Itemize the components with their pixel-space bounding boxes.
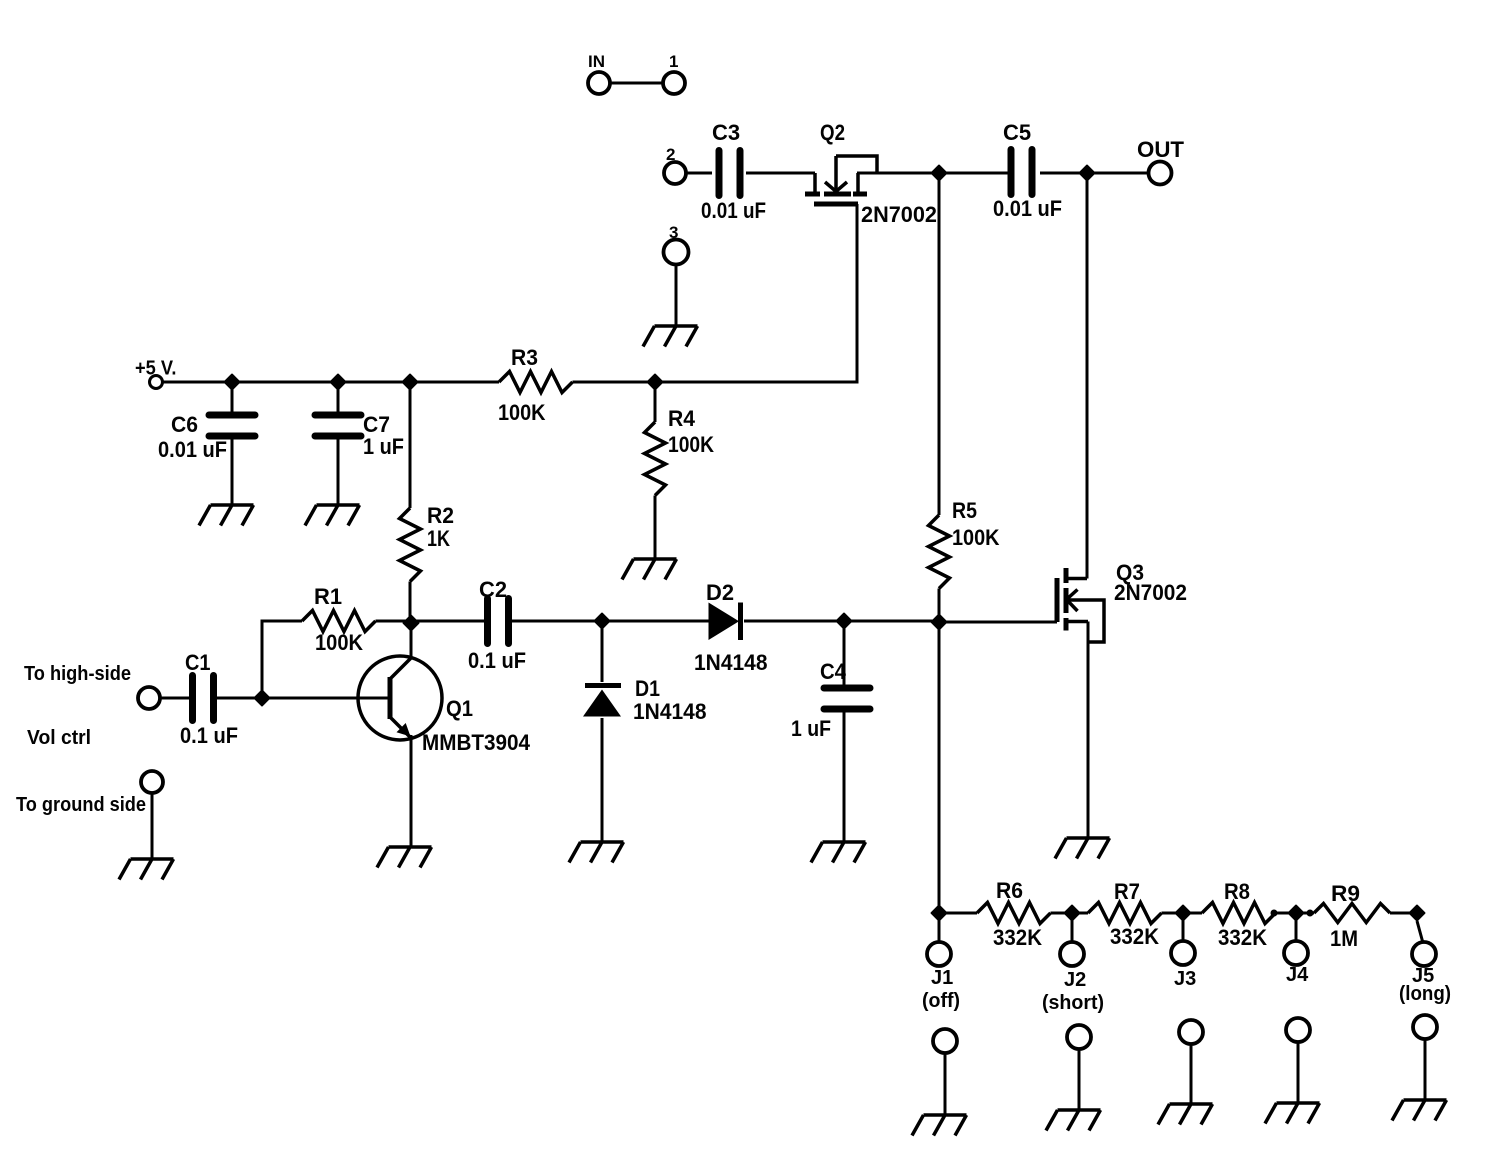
svg-text:C5: C5 <box>1003 120 1031 145</box>
svg-text:332K: 332K <box>1110 924 1159 949</box>
svg-text:OUT: OUT <box>1137 137 1185 162</box>
svg-text:(long): (long) <box>1399 983 1451 1005</box>
svg-text:C2: C2 <box>479 577 507 602</box>
svg-text:100K: 100K <box>952 525 1000 550</box>
svg-text:332K: 332K <box>1218 925 1267 950</box>
svg-text:1 uF: 1 uF <box>363 434 404 459</box>
svg-text:0.01 uF: 0.01 uF <box>158 437 227 462</box>
svg-text:J3: J3 <box>1174 968 1196 990</box>
svg-text:J1: J1 <box>931 967 953 989</box>
svg-text:R7: R7 <box>1114 879 1140 904</box>
svg-text:J2: J2 <box>1064 969 1086 991</box>
svg-text:0.1 uF: 0.1 uF <box>180 723 238 748</box>
svg-text:100K: 100K <box>498 400 546 425</box>
svg-text:332K: 332K <box>993 925 1042 950</box>
svg-text:2N7002: 2N7002 <box>861 202 937 227</box>
svg-text:3: 3 <box>669 223 678 242</box>
svg-text:R2: R2 <box>427 503 454 528</box>
svg-text:D2: D2 <box>706 580 734 605</box>
svg-text:IN: IN <box>588 52 605 71</box>
svg-text:1M: 1M <box>1330 926 1358 951</box>
svg-text:C3: C3 <box>712 120 740 145</box>
svg-text:To high-side: To high-side <box>24 663 131 685</box>
svg-text:R4: R4 <box>668 406 696 431</box>
svg-text:J4: J4 <box>1286 964 1309 986</box>
svg-text:2: 2 <box>666 145 675 164</box>
svg-text:0.1 uF: 0.1 uF <box>468 648 526 673</box>
svg-text:Q1: Q1 <box>446 696 473 721</box>
svg-text:Q2: Q2 <box>820 120 845 145</box>
svg-text:To ground side: To ground side <box>16 794 146 816</box>
svg-text:R3: R3 <box>511 345 538 370</box>
svg-text:100K: 100K <box>315 630 363 655</box>
svg-text:C4: C4 <box>820 659 847 684</box>
svg-text:R1: R1 <box>314 584 342 609</box>
svg-text:C6: C6 <box>171 412 198 437</box>
svg-text:+5 V.: +5 V. <box>135 358 177 380</box>
svg-text:D1: D1 <box>635 676 660 701</box>
svg-text:2N7002: 2N7002 <box>1114 580 1187 605</box>
svg-text:1N4148: 1N4148 <box>633 699 707 724</box>
svg-text:100K: 100K <box>668 432 714 457</box>
svg-text:Vol ctrl: Vol ctrl <box>27 727 91 749</box>
svg-text:1K: 1K <box>427 526 450 551</box>
svg-text:1: 1 <box>669 52 678 71</box>
svg-text:MMBT3904: MMBT3904 <box>422 730 531 755</box>
svg-text:(off): (off) <box>922 990 960 1012</box>
svg-text:1N4148: 1N4148 <box>694 650 768 675</box>
svg-text:0.01 uF: 0.01 uF <box>701 198 766 223</box>
svg-text:1 uF: 1 uF <box>791 716 831 741</box>
svg-text:0.01 uF: 0.01 uF <box>993 196 1062 221</box>
svg-text:R9: R9 <box>1331 881 1360 906</box>
svg-text:R6: R6 <box>996 878 1023 903</box>
svg-text:R8: R8 <box>1224 879 1250 904</box>
svg-text:C1: C1 <box>185 650 211 675</box>
svg-text:(short): (short) <box>1042 992 1104 1014</box>
svg-text:R5: R5 <box>952 498 977 523</box>
